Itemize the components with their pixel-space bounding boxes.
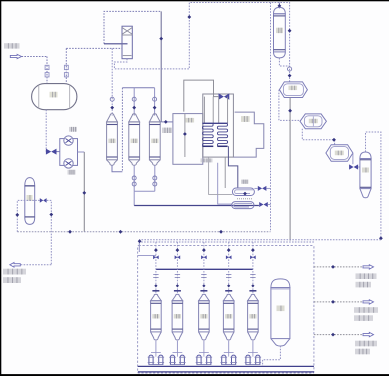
outlet stream arrow bbox=[10, 263, 20, 268]
product arrow b bbox=[363, 300, 374, 304]
wire down to E2 bbox=[133, 191, 135, 205]
furnace box bbox=[203, 94, 234, 157]
wire L down x139 bbox=[138, 240, 140, 252]
flow arrow on x84 bbox=[82, 191, 86, 195]
flange nozzle1 bbox=[45, 65, 49, 77]
pump loop piping bbox=[60, 139, 78, 166]
wire gray pipe loop bbox=[184, 80, 219, 112]
product label c1 bbox=[355, 341, 377, 347]
wire L1 y240 bbox=[139, 239, 381, 241]
flow arrow y232 c bbox=[219, 230, 223, 234]
flow arrow loop left bbox=[15, 213, 19, 217]
drain manifold A1 bbox=[148, 353, 164, 365]
reformer box left bbox=[173, 114, 203, 165]
buffer vessel B6 bbox=[271, 279, 290, 346]
drain manifold A3 bbox=[196, 353, 212, 365]
flange nozzle2 bbox=[64, 65, 68, 77]
wire F1 bottom big loop bbox=[114, 3, 289, 82]
wire gray x290 down bbox=[288, 98, 292, 241]
flow arrow y122 bbox=[164, 120, 168, 124]
exchanger E1 bbox=[232, 188, 254, 199]
product label a2 bbox=[356, 282, 372, 288]
wire x161 to reformer box bbox=[161, 121, 173, 123]
wire A4 bottom stub bbox=[228, 341, 230, 353]
wire drum bottom outlet bbox=[45, 110, 47, 152]
column C3 bbox=[149, 114, 160, 166]
drain manifold A2 bbox=[169, 353, 185, 365]
converter box right bbox=[233, 112, 263, 157]
wire header left down bbox=[121, 88, 123, 172]
outlet label line1 bbox=[3, 269, 26, 275]
wire L2 y242 bbox=[139, 241, 314, 243]
separator D3 bbox=[326, 145, 353, 162]
wire A3 bottom stub bbox=[203, 341, 205, 353]
wire product outlet c bbox=[314, 333, 364, 337]
furnace coil 2 bbox=[217, 123, 227, 146]
product label c2 bbox=[355, 349, 370, 355]
feed gas label bbox=[4, 43, 20, 48]
label under coils bbox=[201, 158, 213, 162]
border frame left bbox=[0, 0, 1, 376]
valve furnace top bbox=[219, 93, 230, 99]
adsorber box frame bbox=[138, 246, 314, 374]
label near C3 bbox=[162, 128, 172, 133]
wire furnace outlet 2 bbox=[224, 157, 226, 188]
separator D2 bbox=[300, 114, 326, 129]
valve V1 bbox=[46, 149, 57, 155]
wire top loop left bbox=[104, 11, 161, 43]
wire D2 to D3 bbox=[302, 129, 336, 145]
adsorber column A4 bbox=[223, 294, 234, 340]
wire feed to drum nozzle1 bbox=[22, 56, 48, 58]
wire to E1 left bbox=[209, 157, 233, 194]
riser fitting C2 bbox=[132, 97, 136, 109]
wire bottom header dark bbox=[156, 268, 253, 270]
flow arrow loop right bbox=[49, 213, 53, 217]
wire RC bottom bbox=[279, 58, 289, 66]
wire recycle loop bbox=[17, 200, 51, 264]
wire pump loop outlet bbox=[78, 151, 85, 153]
wire A2 bottom stub bbox=[176, 341, 178, 353]
pump label top bbox=[69, 127, 77, 132]
outlet label line2 bbox=[3, 277, 21, 283]
wire down x84 bbox=[83, 152, 85, 232]
product label b1 bbox=[354, 307, 378, 313]
wire long vertical x270 bbox=[270, 3, 272, 232]
valve D3 bbox=[349, 164, 360, 169]
wire valve to pump loop bbox=[57, 151, 60, 153]
wire nozzle2 up bbox=[65, 48, 67, 83]
product label b2 bbox=[354, 315, 373, 321]
wire D3 outlet bbox=[352, 153, 354, 164]
border frame bottom bbox=[0, 374, 389, 376]
wire A1 bottom stub bbox=[155, 341, 157, 353]
valve E2 bbox=[259, 202, 270, 207]
drain manifold A4 bbox=[221, 353, 237, 365]
adsorber column A5 bbox=[248, 294, 259, 340]
wire C3 bottom bbox=[153, 165, 157, 191]
column C1 bbox=[107, 114, 118, 166]
product label a1 bbox=[356, 273, 377, 279]
flow arrow y232 b bbox=[119, 230, 123, 234]
wire A5 bottom stub bbox=[252, 341, 254, 353]
column RC bbox=[274, 7, 286, 58]
wire dark into F1 bbox=[104, 43, 128, 45]
wire dark to E2 bbox=[134, 205, 259, 207]
wire C1 riser bbox=[111, 48, 113, 115]
riser adsorber A3 bbox=[200, 242, 207, 294]
inlet stream arrow bbox=[10, 54, 21, 58]
riser adsorber A5 bbox=[249, 242, 256, 294]
wire bottom manifold line2 bbox=[138, 371, 314, 373]
wire bottom manifold line1 bbox=[138, 365, 314, 367]
riser adsorber A2 bbox=[174, 242, 181, 294]
flow arrow y232 a bbox=[68, 230, 72, 234]
wire columns bottoms join bbox=[134, 190, 155, 192]
furnace coil 1 bbox=[202, 123, 213, 146]
drain manifold A5 bbox=[245, 353, 261, 365]
wire drum to filter F1 bbox=[66, 47, 122, 49]
wire C2 bottom bbox=[132, 165, 136, 191]
wire product outlet b bbox=[314, 300, 364, 304]
pump P2 bbox=[64, 159, 73, 168]
valve V2 bbox=[40, 198, 47, 203]
wire mid header bbox=[122, 87, 154, 89]
pump label bottom bbox=[68, 170, 76, 175]
wire to outlet arrow bbox=[19, 264, 51, 266]
wire D1 to D2 bbox=[279, 90, 300, 121]
border frame top bbox=[0, 0, 389, 1]
riser fitting C1 bbox=[110, 97, 114, 109]
wire product outlet a bbox=[314, 265, 364, 269]
adsorber column A3 bbox=[199, 294, 210, 340]
adsorber column A2 bbox=[172, 294, 183, 340]
product arrow a bbox=[363, 265, 374, 269]
flow arrow x381 bbox=[379, 236, 383, 240]
stripper column SV bbox=[360, 152, 371, 198]
product arrow c bbox=[363, 332, 374, 336]
flow arrow x290 top bbox=[288, 29, 292, 33]
fittings below RC bbox=[288, 67, 292, 78]
flow arrow x161 bbox=[159, 37, 163, 41]
exchanger E2 bbox=[232, 202, 254, 209]
pump P1 bbox=[64, 136, 73, 145]
label above E1 bbox=[241, 180, 248, 184]
riser adsorber A4 bbox=[225, 242, 232, 294]
valve E1 bbox=[254, 186, 270, 191]
coil header bar bbox=[202, 122, 227, 124]
wire long vertical x161 bbox=[160, 11, 162, 122]
wire SV top hook bbox=[366, 132, 381, 240]
riser adsorber A1 bbox=[152, 242, 159, 294]
riser fitting C3 bbox=[153, 97, 157, 109]
wire furnace outlet step bbox=[228, 146, 237, 188]
drum V101 bbox=[32, 84, 77, 110]
filter F1 bbox=[122, 26, 132, 59]
wire C3 riser bbox=[154, 88, 156, 116]
wire top stub column RC bbox=[278, 3, 282, 9]
flow arrow x189 bbox=[187, 15, 191, 19]
wire long y232 bbox=[17, 231, 270, 233]
wire box notch to E2 bbox=[218, 163, 232, 204]
flow arrow in box bbox=[183, 132, 187, 136]
wire feed stub bbox=[138, 255, 156, 257]
wire nozzle1 down bbox=[46, 57, 48, 84]
column C2 bbox=[129, 114, 140, 166]
wire B6 bottom bbox=[263, 346, 281, 367]
wire C1 bottom loop bbox=[112, 165, 122, 172]
separator D1 bbox=[279, 82, 307, 98]
flow arrow x139 bbox=[138, 239, 142, 243]
coil risers bbox=[204, 97, 227, 124]
wire C2 riser bbox=[133, 88, 135, 116]
vessel T102 bbox=[25, 178, 35, 225]
adsorber column A1 bbox=[151, 294, 162, 340]
